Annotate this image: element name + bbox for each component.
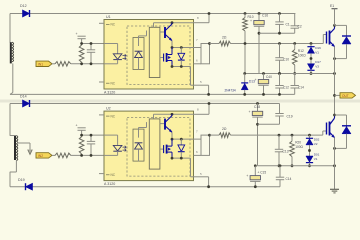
wire input to pin3 ch1 — [71, 63, 104, 65]
svg-text:D16: D16 — [315, 46, 321, 50]
capacitor C40 electrolytic — [255, 72, 273, 96]
wire gate jog ch1 — [323, 35, 326, 44]
svg-text:E1: E1 — [330, 4, 334, 8]
wire gate line ch2 — [231, 134, 323, 136]
pin 6 U2 wire — [194, 150, 202, 156]
capacitor C15 electrolytic — [246, 164, 266, 188]
svg-text:C19: C19 — [287, 115, 293, 119]
capacitor C16 electrolytic — [250, 12, 268, 73]
svg-text:D14: D14 — [20, 95, 27, 99]
svg-text:D02: D02 — [314, 138, 320, 142]
resistor Rp1 input shunt — [79, 44, 84, 64]
svg-text:C1: C1 — [286, 22, 290, 26]
diode DF2 freewheel — [333, 115, 351, 150]
resistor Rg2 2ohm — [210, 127, 231, 137]
svg-text:V3: V3 — [315, 65, 319, 69]
wire U2 Vcc internal — [154, 113, 194, 119]
wire A line ch1 — [259, 32, 295, 34]
wire U2 output node — [171, 132, 201, 140]
svg-text:100Ω: 100Ω — [298, 54, 306, 58]
capacitor C19 — [275, 104, 292, 125]
pin 8 U2 wire — [194, 102, 211, 114]
transistor Q1b MOSFET U1 — [160, 48, 172, 67]
wire A line ch2 — [258, 123, 280, 125]
resistor R12 — [292, 42, 306, 75]
svg-text:+: + — [76, 32, 78, 36]
pin 4 U2 NC — [99, 173, 116, 177]
svg-text:C12: C12 — [283, 86, 289, 90]
svg-text:D19: D19 — [18, 178, 25, 182]
wire U1 Vee internal — [171, 65, 194, 85]
connector J2 — [10, 136, 18, 173]
svg-text:C18: C18 — [254, 105, 260, 109]
wire input to pin3 ch2 — [71, 154, 104, 156]
svg-text:NC: NC — [111, 173, 116, 177]
wire gate line ch1 — [231, 43, 324, 45]
pin 7 U1 wire — [196, 38, 198, 42]
node C16 A — [258, 32, 261, 35]
svg-text:V2: V2 — [314, 142, 318, 146]
pin 5 U1 wire — [194, 80, 211, 96]
wire emitter ch2 — [334, 138, 336, 190]
svg-text:+: + — [250, 19, 252, 23]
svg-text:C40: C40 — [266, 75, 272, 79]
wire bottom return ch1 — [10, 93, 295, 95]
diode DF1 freewheel — [333, 25, 351, 60]
port OUT phase — [335, 93, 356, 98]
node input cap ch2 — [90, 134, 93, 157]
svg-text:R12: R12 — [298, 49, 304, 53]
node phase output — [333, 94, 336, 97]
wire U1 output node — [171, 41, 201, 49]
ground arrow — [28, 150, 32, 155]
svg-text:OUT: OUT — [342, 94, 349, 98]
svg-text:IN1: IN1 — [38, 62, 43, 66]
wire supply rail ch2 — [10, 103, 280, 105]
svg-text:100Ω: 100Ω — [295, 145, 303, 149]
capacitor C10 — [275, 42, 289, 75]
capacitor C12 — [275, 72, 289, 96]
capacitor C18 electrolytic — [249, 102, 263, 166]
diode Dint U1 — [178, 48, 185, 67]
pin 4 U1 NC — [99, 81, 116, 85]
isolation dashed box U1 — [127, 26, 190, 85]
resistor Rs1 input series — [52, 62, 71, 67]
svg-text:+: + — [249, 110, 251, 114]
photodiode U1 — [133, 38, 144, 70]
svg-text:+: + — [246, 174, 248, 178]
resistor R10 — [243, 12, 254, 73]
svg-text:C14: C14 — [298, 86, 304, 90]
svg-text:A 3120: A 3120 — [104, 91, 115, 95]
wire pin2 line ch1 — [82, 43, 104, 45]
zener D16 — [307, 42, 321, 54]
transistor Q2a NPN U2 — [160, 114, 172, 132]
resistor Rp2 input shunt — [79, 135, 84, 155]
svg-text:D12: D12 — [20, 4, 27, 8]
pin 1 U2 NC — [99, 114, 116, 118]
label A3120 U2 — [104, 182, 115, 186]
transistor Q2 IGBT — [327, 115, 335, 138]
svg-text:2N4734: 2N4734 — [225, 89, 236, 93]
seam band between stacked halves — [0, 100, 360, 103]
connector J1 — [10, 42, 14, 94]
op-amp U2 A3120 body — [104, 107, 194, 181]
wire emitter ch1 — [334, 47, 336, 116]
LED light arrows U1 — [123, 54, 127, 60]
svg-text:IN2: IN2 — [38, 154, 43, 158]
photodiode U2 — [133, 129, 144, 161]
svg-text:2Ω: 2Ω — [222, 36, 227, 40]
zener D02 — [306, 134, 320, 146]
wire left vertical loop ch1 — [9, 14, 11, 43]
wire return line ch2 — [258, 164, 336, 167]
capacitor C1 — [275, 12, 290, 35]
svg-text:V1: V1 — [315, 51, 319, 55]
wire gate jog ch2 — [323, 131, 327, 135]
capacitor Cp1 open stub — [76, 32, 86, 44]
svg-text:NC: NC — [111, 81, 116, 85]
wire bottom return ch2 — [10, 186, 280, 188]
capacitor Ci2 input — [87, 135, 95, 155]
isolation dashed box U2 — [127, 118, 190, 177]
zener D13 2N4734 — [225, 72, 256, 96]
port IN2 — [36, 153, 52, 158]
wire photodiode top U1 — [139, 31, 147, 38]
logic block U1 — [149, 27, 160, 77]
transistor Q1a NPN U1 — [160, 23, 172, 41]
wire U2 Vee internal — [171, 157, 194, 177]
zener D01 — [306, 145, 320, 167]
node C18 A — [256, 123, 259, 126]
svg-text:+: + — [76, 123, 78, 127]
svg-text:2Ω: 2Ω — [222, 127, 227, 131]
resistor Rg1 2ohm — [210, 36, 231, 46]
wire photodiode top U2 — [139, 122, 147, 129]
transistor Q1 IGBT — [327, 25, 335, 46]
svg-text:V1: V1 — [314, 157, 318, 161]
diode D14 — [20, 95, 30, 108]
zener D17 — [307, 53, 321, 75]
node collector ch2 — [333, 114, 336, 117]
wire supply rail ch1 — [10, 13, 295, 15]
diode D19 — [18, 178, 33, 190]
svg-text:U2: U2 — [106, 107, 111, 111]
svg-text:C16: C16 — [262, 14, 268, 18]
port IN1 — [36, 61, 52, 66]
wire return line ch1 — [245, 72, 336, 75]
pin 1 U1 NC — [99, 23, 116, 27]
node input shunt ch1 — [80, 42, 83, 65]
capacitor C2 — [291, 14, 302, 34]
svg-text:R20: R20 — [295, 141, 301, 145]
capacitor C13 — [275, 134, 289, 168]
node collector ch1 — [333, 24, 336, 27]
power port E1 — [330, 4, 338, 25]
wire connector tap — [17, 143, 30, 150]
wire pins 6-7 short — [201, 134, 211, 156]
svg-text:C13: C13 — [283, 149, 289, 153]
svg-text:C10: C10 — [283, 58, 289, 62]
transistor Q2b MOSFET U2 — [160, 139, 172, 158]
svg-text:NC: NC — [111, 114, 116, 118]
svg-text:C14: C14 — [286, 177, 292, 181]
LED light arrows U2 — [123, 146, 127, 152]
op-amp U1 A3120 body — [104, 15, 194, 89]
capacitor Ci1 input — [87, 44, 95, 64]
capacitor C14b — [276, 164, 292, 186]
svg-text:+: + — [255, 78, 257, 82]
node input shunt ch2 — [80, 134, 83, 157]
logic block U2 — [149, 119, 160, 169]
ground — [330, 189, 339, 193]
pin 5 U2 wire — [194, 172, 211, 188]
resistor Rs2 input series — [52, 153, 71, 158]
node R10 gate — [244, 42, 247, 45]
svg-text:C2: C2 — [298, 25, 302, 29]
wire pins 6-7 short — [201, 42, 211, 64]
diode D12 — [20, 4, 30, 17]
svg-text:U1: U1 — [106, 15, 111, 19]
svg-text:+ C15: + C15 — [258, 171, 267, 175]
svg-text:A 3120: A 3120 — [104, 182, 115, 186]
svg-text:NC: NC — [111, 23, 116, 27]
wire U1 Vcc internal — [154, 21, 194, 27]
pin 8 U1 wire — [194, 12, 211, 23]
diode Dint U2 — [178, 139, 185, 158]
svg-text:D01: D01 — [314, 152, 320, 156]
capacitor Cp2 open stub — [76, 123, 86, 135]
node input cap ch1 — [90, 42, 93, 65]
LED U1 — [104, 44, 122, 64]
pin 7 U2 wire — [196, 130, 198, 134]
capacitor C14 — [291, 74, 305, 95]
svg-text:D17: D17 — [315, 60, 321, 64]
wire pin2 line ch2 — [82, 134, 104, 136]
LED U2 — [104, 135, 122, 155]
pin 6 U1 wire — [194, 58, 202, 64]
resistor R20 — [290, 134, 304, 168]
wire left vertical loop ch2 — [9, 104, 11, 187]
label A3120 U1 — [104, 91, 115, 95]
